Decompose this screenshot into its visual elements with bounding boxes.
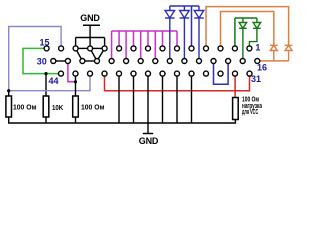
wire orange inner pin3 net xyxy=(221,12,274,49)
resistor Rload 100 Ом нагрузка для VCC xyxy=(233,98,239,120)
node R2 tap dot xyxy=(44,72,47,75)
GND (top) underline bar xyxy=(83,24,100,26)
resistor R3 100 Ом xyxy=(73,96,79,117)
wire GND stem xyxy=(89,25,91,37)
wire orange pin16 to diodes xyxy=(257,60,288,62)
wire pin35 drop to gnd bus xyxy=(191,74,193,123)
wire pin30-pin29 xyxy=(53,60,68,62)
wire magenta drop to pin26 xyxy=(111,31,113,61)
node R1 tap dot xyxy=(7,89,10,92)
wire gnd bottom bus xyxy=(9,117,236,123)
wire green pin15 elbow xyxy=(23,48,61,73)
wire magenta drop to pin6 xyxy=(176,31,178,48)
diode D6 (orange) xyxy=(270,45,278,61)
wire R3 bottom xyxy=(75,117,77,123)
svg-text:1: 1 xyxy=(255,42,260,52)
wire magenta drop to pin23 xyxy=(154,31,156,61)
svg-text:30: 30 xyxy=(37,56,47,66)
wire magenta drop to pin24 xyxy=(140,31,142,61)
wire magenta pin29 to R3 tap xyxy=(68,61,76,82)
wire red pin32 to load resistor xyxy=(234,74,236,98)
wire pin36 drop to gnd bus xyxy=(176,74,178,123)
wire R1 top xyxy=(8,91,10,96)
wire blue U pins19-18 xyxy=(214,61,229,84)
wire comb drop to pin12 xyxy=(89,38,91,49)
svg-text:100 Ом: 100 Ом xyxy=(13,103,37,112)
wire pin43 to R3 xyxy=(75,74,77,96)
svg-text:100 Ом: 100 Ом xyxy=(81,103,105,112)
wire blue diode bar xyxy=(170,5,199,7)
wire blue bar to pin5 xyxy=(191,6,193,48)
bottom row pins 44..31 xyxy=(59,71,253,76)
wire pin11-pin27 diagonal xyxy=(97,48,105,61)
svg-text:15: 15 xyxy=(39,38,49,48)
wire blue box pin14 net xyxy=(9,27,90,91)
svg-text:44: 44 xyxy=(48,76,58,86)
svg-text:31: 31 xyxy=(251,74,261,84)
svg-text:16: 16 xyxy=(257,62,267,72)
node magenta tap dot xyxy=(74,80,77,83)
wire red pin41 to pin31 and load xyxy=(105,74,250,91)
diode D2 (blue) xyxy=(180,6,190,61)
wire magenta bus xyxy=(112,30,177,32)
wire magenta drop to pin10 xyxy=(118,31,120,48)
diode D5 (green) xyxy=(249,18,260,48)
wire R2 top xyxy=(45,74,47,96)
middle row pins 30..16 xyxy=(51,59,260,64)
diode D4 (green) xyxy=(239,18,247,61)
wire magenta drop to pin9 xyxy=(133,31,135,48)
wire magenta drop to pin8 xyxy=(147,31,149,48)
resistor R1 100 Ом xyxy=(6,96,12,117)
wire pin38 drop to gnd bus xyxy=(147,74,149,123)
top row pins 15..1 xyxy=(44,46,252,51)
wire magenta drop to pin25 xyxy=(125,31,127,61)
wire magenta drop to pin7 xyxy=(162,31,164,48)
wire pin40 drop to gnd bus xyxy=(118,74,120,123)
wire pin13-pin12 xyxy=(76,47,91,49)
wire pin13-pin28 diagonal xyxy=(76,48,83,61)
wire GND comb bar xyxy=(76,37,105,39)
svg-text:GND: GND xyxy=(80,13,100,23)
wire pin37 drop to gnd bus xyxy=(162,74,164,123)
svg-text:для VCC: для VCC xyxy=(242,109,258,116)
wire green diode bar xyxy=(235,17,257,19)
wire pin28-pin27 xyxy=(82,60,97,62)
wire R2 bottom xyxy=(45,117,47,123)
ground symbol (bottom) xyxy=(147,123,149,134)
wire orange outer pin4 net xyxy=(206,7,289,49)
wire comb drop to pin13 xyxy=(75,38,77,49)
svg-text:10K: 10K xyxy=(52,103,64,112)
svg-text:GND: GND xyxy=(139,136,159,146)
wire pin12-pin27 diagonal xyxy=(90,48,97,61)
diode D7 (orange) xyxy=(285,45,293,61)
diode D1 (blue) xyxy=(165,6,175,61)
wire green bar to pin2 xyxy=(234,18,236,48)
diode D3 (blue) xyxy=(194,6,204,61)
wire pin39 drop to gnd bus xyxy=(133,74,135,123)
resistor R2 10K xyxy=(43,96,49,117)
wire pin12-pin11 xyxy=(90,47,105,49)
wire comb drop to pin11 xyxy=(104,38,106,49)
